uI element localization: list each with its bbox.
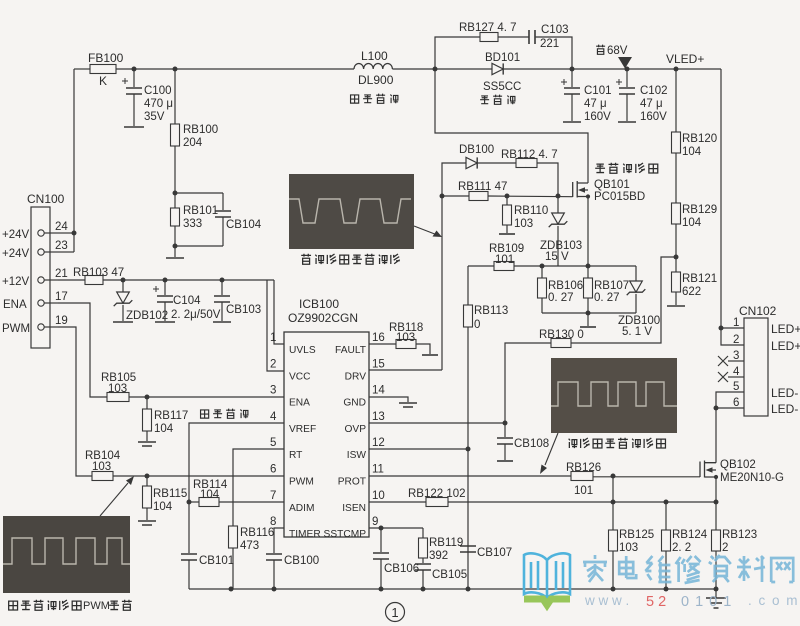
pin 1 UVLS label <box>270 332 316 356</box>
svg-text:68V: 68V <box>607 45 628 57</box>
wire +12V rail corner down to UVLS pin1 <box>274 280 284 344</box>
svg-text:TIMER: TIMER <box>289 529 321 540</box>
svg-text:RB122 102: RB122 102 <box>408 488 466 500</box>
svg-text:BD101: BD101 <box>485 52 520 64</box>
svg-text:C102: C102 <box>640 85 668 97</box>
svg-text:ADIM: ADIM <box>289 503 314 514</box>
svg-text:24: 24 <box>55 221 68 233</box>
svg-text:4: 4 <box>270 411 277 423</box>
svg-text:PWM: PWM <box>2 323 30 335</box>
capacitor CB106 <box>373 528 419 589</box>
node junction RB101 bottom <box>173 244 178 249</box>
pin 19 CN100 PWM <box>2 315 68 335</box>
svg-text:103: 103 <box>514 218 533 230</box>
svg-text:103: 103 <box>619 542 638 554</box>
svg-text:OZ9902CGN: OZ9902CGN <box>288 311 358 325</box>
transistor QB101 PC015BD boost MOSFET <box>573 179 645 203</box>
svg-text:RB113: RB113 <box>474 305 508 317</box>
capacitor C104 2.2u/50V <box>153 280 221 321</box>
svg-text:SSTCMP: SSTCMP <box>324 529 367 540</box>
svg-text:RB112 4. 7: RB112 4. 7 <box>501 149 558 161</box>
svg-text:RB125: RB125 <box>619 529 654 541</box>
node junction C104 tap <box>163 278 168 283</box>
capacitor C101 47u/160V <box>561 69 612 123</box>
svg-text:RB126: RB126 <box>566 462 601 474</box>
wire RB104 to IC PWM pin6 <box>113 475 284 477</box>
wire pin23 to +24V vertical <box>58 251 74 253</box>
node junction RB100 tap <box>173 67 178 72</box>
node junction OVP divider tap <box>674 224 679 272</box>
node junction RB115 tap / PWM waveform probe <box>145 474 150 479</box>
svg-text:UVLS: UVLS <box>289 345 316 356</box>
pin 5 CN102 <box>733 381 798 400</box>
svg-text:CB104: CB104 <box>226 219 262 231</box>
wire RB122 to QB102 source sense <box>448 501 716 503</box>
pin 5 RT label <box>270 437 302 461</box>
resistor RB110 103 <box>503 196 549 233</box>
svg-text:C103: C103 <box>541 24 569 36</box>
resistor RB101 333 <box>171 193 219 246</box>
svg-text:RB115: RB115 <box>153 488 187 500</box>
waveform photo PWM dimming control <box>3 516 130 593</box>
svg-text:RB120: RB120 <box>682 133 717 145</box>
svg-text:333: 333 <box>183 218 202 230</box>
ground GND pin14 <box>399 403 417 407</box>
svg-text:19: 19 <box>55 315 68 327</box>
wire pin1 stub <box>721 327 744 329</box>
capacitor CB101 <box>181 554 234 589</box>
svg-text:CB101: CB101 <box>199 555 234 567</box>
ground RB101 bottom <box>166 246 184 258</box>
pin 3 ENA label <box>270 385 310 409</box>
svg-text:103: 103 <box>396 332 415 344</box>
svg-text:CB105: CB105 <box>432 569 467 581</box>
ground C101 bar <box>563 121 581 123</box>
capacitor C102 47u/160V <box>616 69 668 123</box>
wire sense bottom rail <box>542 312 636 314</box>
svg-text:RT: RT <box>289 450 302 461</box>
node junction zener gate node <box>556 194 561 199</box>
node junction ground rail x666 <box>664 587 669 592</box>
resistor RB116 473 <box>229 526 275 589</box>
svg-text:160V: 160V <box>640 111 667 123</box>
node junction RB125 top <box>611 474 616 479</box>
capacitor CB108 <box>497 423 549 460</box>
node junction ground rail x381 <box>379 587 384 592</box>
wire RB127 branch up <box>435 37 480 69</box>
svg-text:RB121: RB121 <box>682 273 717 285</box>
node junction ZDB102 tap <box>121 278 126 283</box>
svg-text:1: 1 <box>733 317 739 329</box>
svg-text:. c o m: . c o m <box>748 593 799 608</box>
svg-text:13: 13 <box>372 411 385 423</box>
wire SSTCMP pin9 net <box>369 527 423 529</box>
capacitor C100 470u/35V electrolytic <box>122 69 173 126</box>
pin 2 CN102 <box>733 334 800 353</box>
pin 17 CN100 ENA <box>3 291 68 311</box>
resistor RB126 101 <box>566 462 601 497</box>
wire RB130 OVP feedback <box>505 343 551 423</box>
svg-text:+24V: +24V <box>2 229 30 241</box>
resistor RB100 204 <box>171 69 219 193</box>
svg-text:PWM: PWM <box>289 477 314 488</box>
wire RB109 rail left corner from RB113 vertical <box>468 265 494 267</box>
watermark book icon <box>524 553 570 605</box>
resistor RB130 0 <box>539 329 584 348</box>
resistor RB112 4.7 <box>501 149 558 168</box>
svg-text:0. 27: 0. 27 <box>548 292 574 304</box>
svg-text:0 1 0 1: 0 1 0 1 <box>681 594 732 610</box>
ground RB115 <box>138 521 156 525</box>
pin 7 ADIM label <box>270 490 314 514</box>
wire PROT pin11 net to RB126 <box>369 475 571 477</box>
resistor RB105 103 <box>101 372 136 402</box>
wire input +24V top rail from corner to FB100 <box>74 68 90 70</box>
svg-text:K: K <box>99 74 107 88</box>
svg-text:21: 21 <box>55 268 68 280</box>
node junction RB120 top <box>674 67 679 72</box>
svg-text:RB110: RB110 <box>514 205 548 217</box>
svg-text:6: 6 <box>733 397 739 409</box>
svg-text:0: 0 <box>474 319 480 331</box>
ground ZDB102 bar <box>113 321 133 323</box>
svg-text:LED-: LED- <box>771 402 798 416</box>
node junction RB125 mid <box>611 500 616 505</box>
node junction sense ground <box>586 311 591 316</box>
label approx 68V with probe arrow <box>596 45 632 69</box>
wire RB127 to C103 <box>498 36 529 38</box>
resistor RB127 4.7 <box>459 22 517 42</box>
node junction pin24 on +24V vertical <box>72 231 77 236</box>
svg-text:6: 6 <box>270 464 276 476</box>
svg-text:47 μ: 47 μ <box>640 98 663 110</box>
svg-text:PC015BD: PC015BD <box>594 191 645 203</box>
svg-text:LED-: LED- <box>771 386 798 400</box>
fuse FB100 <box>88 51 124 88</box>
pin 15 DRV label <box>345 358 385 382</box>
resistor RB124 2.2 <box>662 502 708 589</box>
node junction C102 top / 68V probe <box>625 67 630 72</box>
capacitor CB104 <box>215 193 262 246</box>
ground RB118 bar <box>422 354 438 356</box>
wire RB114 to ADIM pin7 <box>219 501 284 503</box>
svg-text:C104: C104 <box>173 295 201 307</box>
svg-text:CB108: CB108 <box>514 438 549 450</box>
svg-text:ISW: ISW <box>347 450 367 461</box>
svg-text:3: 3 <box>733 350 739 362</box>
svg-text:RB101: RB101 <box>183 205 218 217</box>
waveform photo dimming drive pulses <box>551 358 677 433</box>
svg-text:2: 2 <box>733 334 739 346</box>
svg-text:5. 1 V: 5. 1 V <box>622 326 652 338</box>
node junction boost node L100/BD101/RB127/drain <box>433 67 438 72</box>
pin 6 PWM label <box>270 464 314 488</box>
waveform photo boost drive pulses <box>289 174 414 249</box>
capacitor CB100 <box>266 554 319 589</box>
resistor RB115 104 <box>143 476 188 520</box>
svg-text:2. 2: 2. 2 <box>672 542 691 554</box>
wire L100 to boost node <box>392 68 435 70</box>
wire RB101/CB104 bottom rail <box>175 245 223 247</box>
inductor L100 DL900 storage choke <box>354 49 394 87</box>
node junction pin6 tie <box>714 406 719 411</box>
resistor RB114 104 <box>189 479 228 507</box>
svg-text:12: 12 <box>372 437 385 449</box>
pin 14 GND label <box>343 385 385 409</box>
svg-text:RB124: RB124 <box>672 529 708 541</box>
connector CN100 body <box>27 192 65 348</box>
resistor RB123 2 <box>712 502 758 589</box>
label circled figure number 1 <box>386 603 405 622</box>
wire RB113 vertical to ground rail <box>467 449 469 589</box>
svg-text:CB107: CB107 <box>477 547 512 559</box>
svg-text:DRV: DRV <box>345 371 367 382</box>
zener diode ZDB102 <box>114 280 168 322</box>
wire ISEN pin10 to RB122 <box>369 501 426 503</box>
ground C104 bar <box>155 321 175 323</box>
node junction RB106 top <box>540 264 545 269</box>
svg-text:FAULT: FAULT <box>335 345 366 356</box>
svg-text:QB101: QB101 <box>594 179 630 191</box>
svg-text:CB103: CB103 <box>226 304 261 316</box>
svg-text:47 μ: 47 μ <box>584 98 607 110</box>
wire VREF pin4 net down <box>189 423 284 553</box>
node junction ground rail x423 <box>421 587 426 592</box>
label VLED+ net <box>666 52 704 66</box>
svg-text:5 2: 5 2 <box>646 594 666 610</box>
pin 13 OVP label <box>344 411 384 435</box>
node junction ground rail x613 <box>611 587 616 592</box>
pin 9 SSTCMP label <box>324 516 379 540</box>
wire pin21 +12V to RB103 <box>58 279 85 281</box>
wire RB111 branch <box>442 195 469 197</box>
node junction QB102 source <box>714 477 719 505</box>
node junction RB101 top rail left <box>173 191 178 196</box>
svg-text:23: 23 <box>55 240 68 252</box>
svg-text:RB117: RB117 <box>154 410 188 422</box>
resistor RB119 392 <box>419 528 464 563</box>
ground C100 bottom bar <box>124 126 144 128</box>
wire BD101 cathode to VLED+ corner <box>503 68 721 70</box>
wire C103 to VLED node <box>536 37 572 69</box>
wire RT pin5 net down <box>233 449 284 526</box>
node junction CB106 tap <box>379 526 384 531</box>
svg-text:ZDB102: ZDB102 <box>126 310 168 322</box>
resistor RB118 103 <box>389 322 423 349</box>
wire RB105 to IC ENA pin3 <box>129 396 284 398</box>
svg-text:15: 15 <box>372 358 385 370</box>
svg-text:RB127 4. 7: RB127 4. 7 <box>459 22 517 34</box>
svg-text:RB111 47: RB111 47 <box>458 181 507 193</box>
node junction RB114 left <box>187 500 192 505</box>
svg-text:2: 2 <box>270 358 276 370</box>
svg-text:2: 2 <box>722 542 728 554</box>
svg-text:470 μ: 470 μ <box>144 98 173 110</box>
zener diode ZDB103 15V <box>540 196 582 266</box>
node junction ground rail x468 <box>466 587 471 592</box>
node junction CB108 tap <box>503 421 508 426</box>
label chusu inductor chinese <box>351 94 399 104</box>
svg-text:9: 9 <box>372 516 378 528</box>
svg-text:VCC: VCC <box>289 371 311 382</box>
svg-text:103: 103 <box>92 461 111 473</box>
wire RB118 to ground corner <box>416 344 430 354</box>
ground sense rail <box>580 313 596 327</box>
svg-text:RB100: RB100 <box>183 124 218 136</box>
svg-text:104: 104 <box>153 501 173 513</box>
wire RB126 to QB102 gate <box>593 476 700 478</box>
pin 2 VCC label <box>270 358 311 382</box>
svg-text:7: 7 <box>270 490 276 502</box>
svg-text:OVP: OVP <box>344 424 366 435</box>
wire +24V vertical from FB100 corner down to CN100 pins 24/23 <box>73 69 75 252</box>
capacitor CB105 <box>415 564 467 589</box>
svg-text:5: 5 <box>733 381 739 393</box>
resistor RB107 0.27 <box>584 266 630 313</box>
node junction ground rail x274 <box>272 587 277 592</box>
wire +12V rail RB103 to IC corner <box>103 279 274 281</box>
resistor RB106 0.27 <box>538 266 584 313</box>
svg-text:RB129: RB129 <box>682 204 717 216</box>
node junction ground rail x231 <box>229 587 234 592</box>
resistor RB103 47 <box>73 267 124 285</box>
svg-text:35V: 35V <box>144 111 165 123</box>
pin 3 CN102 <box>718 350 744 366</box>
wire OVP pin13 net <box>369 422 505 424</box>
wire ISW pin12 net <box>369 448 468 450</box>
wire FAULT pin16 stub <box>369 343 396 345</box>
svg-text:0. 27: 0. 27 <box>594 292 620 304</box>
wire RB112 to gate node corner <box>537 163 558 196</box>
pin 11 PROT label <box>338 464 384 488</box>
svg-text:L100: L100 <box>361 49 388 63</box>
pin 1 CN102 <box>733 317 800 336</box>
svg-text:LED+: LED+ <box>771 339 800 353</box>
pin 4 VREF label <box>270 411 316 435</box>
svg-text:ENA: ENA <box>3 299 27 311</box>
svg-text:ME20N10-G: ME20N10-G <box>720 472 784 484</box>
wire DB100 to RB112 <box>477 162 516 164</box>
pin 6 CN102 <box>733 397 798 416</box>
svg-text:C100: C100 <box>144 85 172 97</box>
svg-text:1: 1 <box>270 332 276 344</box>
capacitor CB107 <box>460 546 512 559</box>
resistor RB113 0 vertical <box>464 266 509 449</box>
wire RB100 node to L100 <box>175 68 354 70</box>
ground C102 bar <box>618 121 636 123</box>
svg-text:RB116: RB116 <box>240 527 274 539</box>
svg-text:ENA: ENA <box>289 398 310 409</box>
svg-text:1: 1 <box>391 605 398 620</box>
capacitor CB103 <box>214 280 261 321</box>
wire arrow waveform1 to DRV node <box>414 226 442 237</box>
ground RB121 bar <box>667 305 685 307</box>
pin 23 CN100 +24V <box>2 240 68 260</box>
svg-text:14: 14 <box>372 385 385 397</box>
wire ENA pin17 to RB105 <box>58 303 107 397</box>
wire DRV vertical from IC pin15 up to gate network <box>442 163 466 370</box>
pin 24 CN100 +24V <box>2 221 68 241</box>
svg-text:+24V: +24V <box>2 248 30 260</box>
node junction ISW to RB113 bottom <box>466 447 471 452</box>
svg-text:204: 204 <box>183 137 203 149</box>
svg-text:QB102: QB102 <box>720 459 756 471</box>
svg-text:5: 5 <box>270 437 276 449</box>
node junction ground rail x716 <box>714 587 719 592</box>
label reference voltage chinese <box>201 409 249 419</box>
svg-text:w w w .: w w w . <box>584 593 629 608</box>
node junction RB110 tap <box>505 194 510 199</box>
wire RB101/CB104 top rail <box>175 192 223 194</box>
wire pin24 to +24V vertical <box>58 232 74 234</box>
svg-text:RB119: RB119 <box>429 537 463 549</box>
svg-text:101: 101 <box>495 254 514 266</box>
wire GND pin14 stub <box>369 397 408 402</box>
pin 16 FAULT label <box>335 332 385 356</box>
node junction RB117 tap <box>145 395 150 400</box>
svg-text:LED+: LED+ <box>771 322 800 336</box>
resistor RB122 102 <box>408 488 466 507</box>
svg-text:DL900: DL900 <box>358 73 394 87</box>
svg-text:SS5CC: SS5CC <box>483 81 521 93</box>
resistor RB121 622 <box>672 272 718 305</box>
wire RB111 to QB101 gate <box>488 195 573 198</box>
svg-text:CN100: CN100 <box>27 192 65 206</box>
ground RB117 <box>138 442 156 446</box>
svg-text:16: 16 <box>372 332 385 344</box>
svg-text:VLED+: VLED+ <box>666 52 704 66</box>
svg-text:473: 473 <box>240 540 259 552</box>
svg-text:VREF: VREF <box>289 424 316 435</box>
resistor RB104 103 <box>85 450 121 481</box>
op-amp U1 controller IC ICB100 OZ9902CGN body <box>284 297 369 537</box>
pin 21 CN100 +12V <box>2 268 68 288</box>
node junction CN102 pin1 <box>719 326 724 331</box>
wire TIMER pin8 net down <box>274 528 284 553</box>
label rectifier chinese <box>480 95 515 105</box>
label boost switch chinese <box>595 163 658 174</box>
svg-text:CB106: CB106 <box>384 563 419 575</box>
diode BD101 SS5CC rectifier <box>483 52 521 93</box>
resistor RB120 104 <box>672 69 718 158</box>
capacitor C103 221 <box>529 24 569 50</box>
wire PWM pin19 to RB104 <box>58 327 92 476</box>
node junction RB124 top <box>664 500 669 505</box>
pin 8 TIMER label <box>270 516 321 540</box>
svg-text:CN102: CN102 <box>739 304 777 318</box>
svg-text:392: 392 <box>429 550 448 562</box>
wire arrow waveform2 to PROT line <box>540 433 558 474</box>
svg-text:GND: GND <box>343 398 366 409</box>
connector CN102 body <box>739 304 777 416</box>
svg-text:CB100: CB100 <box>284 555 319 567</box>
svg-text:+12V: +12V <box>2 276 30 288</box>
node junction CB103 tap <box>220 278 225 283</box>
svg-text:104: 104 <box>682 217 702 229</box>
svg-text:ISEN: ISEN <box>342 503 366 514</box>
svg-text:17: 17 <box>55 291 68 303</box>
svg-text:104: 104 <box>682 146 702 158</box>
resistor RB109 101 <box>489 243 524 271</box>
node junction C101 top <box>570 67 575 72</box>
svg-text:PWM: PWM <box>83 600 110 612</box>
wire RB109 to ZDB100 <box>514 265 636 267</box>
svg-text:RB106: RB106 <box>548 280 583 292</box>
wire RB130 to divider tap <box>571 257 676 343</box>
svg-text:160V: 160V <box>584 111 611 123</box>
wire DRV pin15 stub <box>369 369 442 371</box>
wire VLED+ rail down right edge <box>721 69 744 345</box>
